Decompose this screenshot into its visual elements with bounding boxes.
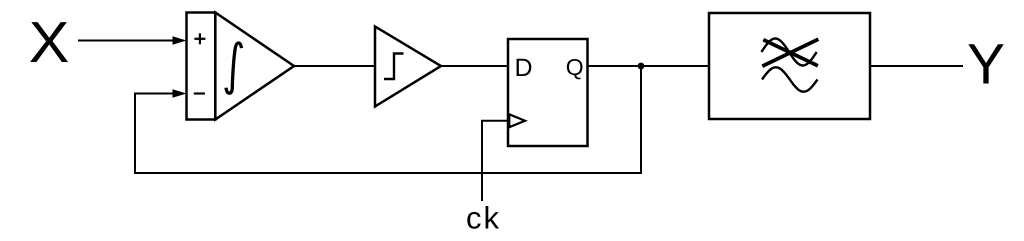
wire feedback from junction to summer - input (135, 66, 641, 173)
wire Q output to filter (588, 65, 710, 67)
clock edge triangle (509, 114, 525, 127)
plus sign (+ input) (194, 38, 205, 40)
wire input arrow to summer + input (78, 40, 174, 42)
svg-text:D: D (515, 54, 533, 82)
wire clock input ck (482, 121, 508, 201)
wire comparator to flip-flop D (441, 65, 508, 67)
flip-flop U3 (D flip-flop box) (508, 39, 588, 146)
wire integrator to comparator (294, 65, 375, 67)
wire filter to output Y (870, 65, 963, 67)
filter symbol: cross line 2 (763, 40, 818, 66)
step symbol inside comparator (384, 54, 404, 80)
filter symbol: bottom sine wave (762, 67, 818, 91)
integrator U1 (triangle) (215, 13, 294, 120)
comparator U2 (quantizer triangle) (375, 27, 441, 107)
svg-text:Y: Y (967, 33, 1005, 97)
filter symbol: cross line 1 (762, 39, 818, 66)
svg-text:ck: ck (466, 201, 501, 236)
minus sign (- input) (194, 92, 205, 94)
integral sign label (226, 43, 242, 93)
svg-text:X: X (29, 10, 70, 75)
filter symbol: top sine wave (crossed out) (762, 39, 817, 66)
summer S1 (summing junction box) (187, 13, 216, 120)
junction dot on Q output (638, 63, 645, 70)
svg-text:Q: Q (566, 54, 584, 80)
filter U4 (low-pass filter box) (709, 13, 870, 119)
